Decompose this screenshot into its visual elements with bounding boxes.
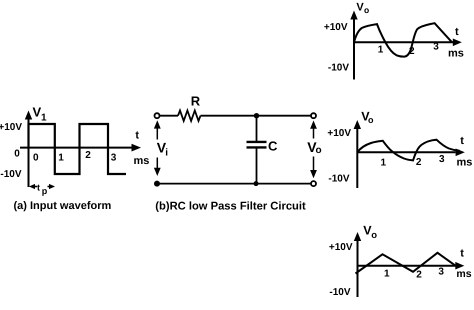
svg-text:ms: ms — [457, 157, 473, 169]
svg-text:+10V: +10V — [324, 22, 348, 33]
Vi label — [157, 140, 169, 159]
svg-text:o: o — [316, 145, 322, 156]
output2 axis label Vo — [361, 109, 374, 125]
svg-text:1: 1 — [41, 112, 47, 123]
node B junction dot — [254, 181, 259, 186]
svg-text:3: 3 — [439, 154, 445, 165]
svg-text:t: t — [455, 26, 459, 38]
svg-text:t: t — [460, 135, 464, 147]
svg-text:o: o — [368, 115, 374, 125]
svg-text:ms: ms — [448, 48, 464, 60]
Vi voltage arrows — [154, 120, 161, 176]
output1 axis label Vo — [356, 2, 369, 16]
svg-text:1: 1 — [58, 153, 64, 164]
wire top-left terminal to resistor — [160, 115, 178, 117]
output3 vertical axis — [354, 232, 361, 297]
svg-text:t: t — [460, 247, 464, 259]
output3 waveform trace (very large time constant, triangle) — [356, 253, 456, 274]
wire node A to terminal top-right — [257, 115, 312, 117]
svg-text:3: 3 — [438, 267, 444, 278]
terminal top-right — [311, 113, 316, 118]
svg-text:R: R — [191, 94, 201, 109]
svg-text:(a) Input waveform: (a) Input waveform — [14, 200, 112, 212]
output1 horizontal axis (t) — [354, 39, 462, 47]
svg-text:C: C — [268, 139, 278, 154]
svg-text:1: 1 — [378, 45, 384, 56]
output2 waveform trace (large time constant) — [357, 140, 460, 161]
output1 waveform trace (medium time constant) — [354, 23, 452, 56]
input waveform axis label V1 — [33, 105, 48, 124]
Vo label — [307, 139, 321, 156]
svg-text:2: 2 — [416, 270, 422, 281]
node A junction dot — [254, 113, 259, 118]
svg-text:+10V: +10V — [327, 128, 351, 139]
svg-text:2: 2 — [416, 157, 422, 168]
svg-text:3: 3 — [111, 153, 117, 164]
svg-text:+10V: +10V — [0, 122, 22, 133]
capacitor C — [247, 116, 267, 184]
svg-text:0: 0 — [33, 153, 39, 164]
svg-text:-10V: -10V — [329, 287, 350, 298]
svg-text:1: 1 — [384, 269, 390, 280]
svg-text:-10V: -10V — [328, 174, 349, 185]
Vo voltage arrows — [310, 121, 317, 179]
svg-text:t: t — [135, 129, 139, 141]
svg-text:(b)RC low Pass Filter Circuit: (b)RC low Pass Filter Circuit — [155, 201, 306, 213]
svg-text:1: 1 — [381, 158, 387, 169]
terminal top-left — [155, 113, 160, 118]
output3 axis label Vo — [363, 224, 377, 241]
svg-text:+10V: +10V — [329, 242, 353, 253]
svg-text:t: t — [37, 183, 40, 193]
terminal bottom-left — [154, 181, 160, 187]
svg-text:3: 3 — [433, 42, 439, 53]
tp pulse width annotation — [29, 183, 55, 196]
resistor R — [178, 111, 200, 121]
input waveform vertical axis — [25, 111, 32, 188]
output1 vertical axis — [350, 11, 357, 80]
bottom wire — [157, 183, 314, 185]
svg-text:i: i — [165, 147, 168, 158]
svg-text:2: 2 — [85, 150, 91, 161]
terminal bottom-right — [311, 181, 316, 186]
svg-text:ms: ms — [456, 268, 471, 280]
input square wave trace — [29, 124, 127, 174]
wire resistor to node A — [201, 115, 257, 117]
svg-text:p: p — [42, 186, 48, 196]
output3 horizontal axis (t) — [358, 262, 465, 270]
svg-text:-10V: -10V — [328, 63, 349, 74]
output2 vertical axis — [354, 120, 361, 188]
svg-text:0: 0 — [14, 149, 20, 160]
svg-text:ms: ms — [134, 155, 150, 167]
svg-text:o: o — [364, 5, 369, 15]
input waveform horizontal axis (t) — [20, 144, 141, 152]
output2 horizontal axis (t) — [357, 149, 465, 157]
svg-text:o: o — [371, 230, 377, 241]
svg-text:-10V: -10V — [0, 169, 21, 180]
